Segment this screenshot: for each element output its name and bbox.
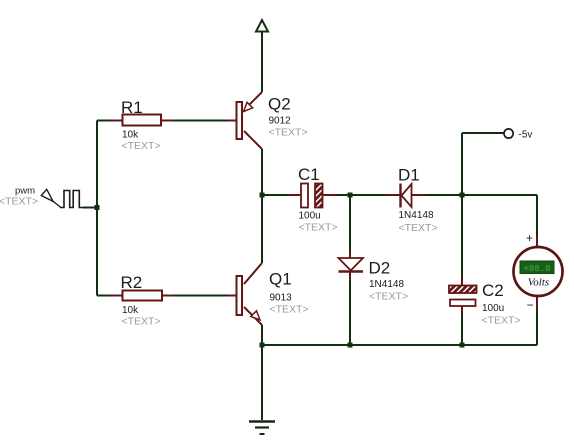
svg-text:-5v: -5v: [519, 130, 533, 141]
resistor R1: [97, 115, 173, 126]
placeholder text C2: [482, 315, 521, 327]
resistor R2: [97, 291, 173, 301]
wire C2 to rail: [461, 306, 463, 345]
capacitor C1: [301, 184, 323, 208]
value 1N4148: [399, 210, 434, 221]
svg-text:−: −: [527, 298, 534, 312]
placeholder text Q2: [269, 127, 308, 139]
junction pwm bus: [95, 205, 100, 210]
wire pwm to bus: [83, 207, 97, 209]
svg-text:<TEXT>: <TEXT>: [399, 222, 438, 234]
junction rail D2: [348, 343, 353, 348]
wire R2 to Q1 base: [173, 295, 228, 297]
label D2: [369, 259, 391, 278]
svg-text:<TEXT>: <TEXT>: [0, 196, 38, 208]
diode D1: [401, 184, 412, 208]
wire node to C1: [262, 194, 301, 196]
wire R1 to Q2 base: [173, 120, 228, 122]
svg-text:<TEXT>: <TEXT>: [482, 315, 521, 327]
capacitor C2: [449, 286, 477, 307]
svg-text:100u: 100u: [299, 211, 321, 222]
svg-text:<TEXT>: <TEXT>: [270, 304, 309, 316]
svg-text:R1: R1: [121, 98, 143, 117]
svg-text:Volts: Volts: [528, 277, 549, 289]
value 10k: [122, 130, 139, 141]
junction node C2 top: [460, 193, 465, 198]
label R1: [121, 98, 143, 117]
label D1: [398, 166, 420, 185]
value 100u: [482, 303, 504, 314]
placeholder text D2: [369, 291, 408, 303]
svg-text:100u: 100u: [482, 303, 504, 314]
wire VCC to Q2 emitter: [261, 32, 263, 93]
ground: [249, 422, 275, 435]
wire D2 to rail: [349, 272, 351, 346]
label minus: [527, 298, 534, 312]
label pwm: [15, 186, 35, 197]
svg-text:R2: R2: [121, 273, 143, 292]
transistor Q2: [228, 92, 262, 149]
wire voltmeter to rail: [536, 296, 538, 345]
svg-text:D1: D1: [398, 166, 420, 185]
svg-text:Q2: Q2: [268, 95, 291, 114]
svg-text:9013: 9013: [270, 293, 293, 304]
svg-text:10k: 10k: [122, 130, 139, 141]
wire rail to ground: [261, 345, 263, 420]
svg-text:C2: C2: [482, 281, 504, 300]
svg-text:<TEXT>: <TEXT>: [122, 316, 161, 328]
label C2: [482, 281, 504, 300]
label C1: [298, 165, 320, 184]
value 100u: [299, 211, 321, 222]
wire node to voltmeter: [462, 195, 537, 247]
wire C1 to node D2: [323, 194, 351, 196]
svg-text:1N4148: 1N4148: [399, 210, 434, 221]
placeholder text D1: [399, 222, 438, 234]
svg-text:<TEXT>: <TEXT>: [122, 140, 161, 152]
svg-text:+88.8: +88.8: [523, 264, 550, 274]
wire node up to -5v: [462, 133, 504, 195]
label R2: [121, 273, 143, 292]
diode D2: [339, 258, 364, 272]
svg-text:1N4148: 1N4148: [369, 279, 404, 290]
label -5v: [519, 130, 533, 141]
label Q1: [269, 270, 292, 289]
voltmeter U1: [514, 247, 563, 296]
svg-text:<TEXT>: <TEXT>: [299, 222, 338, 234]
value 10k: [122, 305, 139, 316]
value 1N4148: [369, 279, 404, 290]
svg-text:+: +: [526, 231, 533, 245]
wire bottom rail: [262, 344, 537, 346]
svg-text:<TEXT>: <TEXT>: [369, 291, 408, 303]
label Q2: [268, 95, 291, 114]
svg-text:9012: 9012: [269, 116, 292, 127]
placeholder text C1: [299, 222, 338, 234]
svg-text:Q1: Q1: [269, 270, 292, 289]
label plus: [526, 231, 533, 245]
wire node C2 down: [461, 195, 463, 285]
transistor Q1: [228, 263, 262, 325]
junction node collector: [260, 193, 265, 198]
junction rail C2: [460, 343, 465, 348]
placeholder text pwm: [0, 196, 38, 208]
svg-text:C1: C1: [298, 165, 320, 184]
wire input bus left vertical: [96, 121, 98, 296]
placeholder text Q1: [270, 304, 309, 316]
wire node to D1: [350, 194, 400, 196]
svg-text:10k: 10k: [122, 305, 139, 316]
terminal -5v: [504, 129, 513, 138]
value 9013: [270, 293, 293, 304]
value 9012: [269, 116, 292, 127]
wire D1 to node C2: [412, 194, 463, 196]
junction node D2 top: [348, 193, 353, 198]
wire Q2 collector to node: [261, 149, 263, 195]
input terminal pwm: [41, 189, 83, 207]
junction rail Q1: [260, 343, 265, 348]
wire Q1 emitter to rail: [261, 325, 263, 345]
power VCC arrow terminal: [256, 20, 268, 32]
svg-text:D2: D2: [369, 259, 391, 278]
wire node D2 down: [349, 195, 351, 258]
wire node to Q1 collector: [261, 195, 263, 263]
placeholder text R1: [122, 140, 161, 152]
svg-text:<TEXT>: <TEXT>: [269, 127, 308, 139]
placeholder text R2: [122, 316, 161, 328]
